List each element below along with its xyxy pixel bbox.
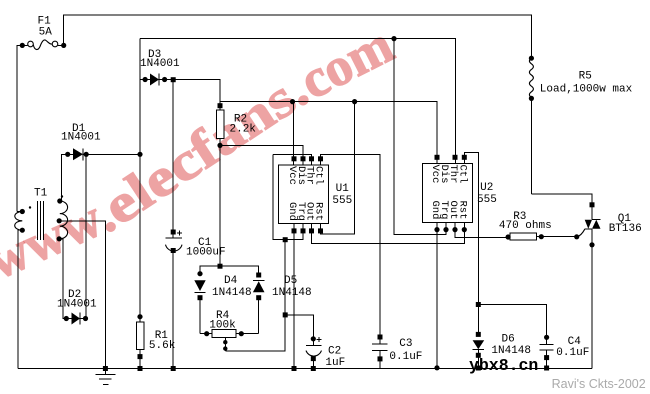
wire trg jog xyxy=(273,155,303,240)
U1 pin Gnd (pin 1) xyxy=(292,228,297,233)
wire U2 gnd xyxy=(436,222,438,368)
junction fuse left node xyxy=(20,43,25,48)
triac Q1 bars xyxy=(592,219,601,221)
wire to T1 primary top xyxy=(17,211,22,213)
U2 pin Ctl (pin 5) xyxy=(462,155,467,160)
R3 left terminal xyxy=(506,234,511,239)
fuse F1 left circle xyxy=(28,41,34,47)
T1 primary top terminal xyxy=(20,209,25,214)
Q1 MT2 pin xyxy=(590,202,595,207)
diode D1 xyxy=(73,148,83,160)
junction U2 Gnd on ground bus xyxy=(434,365,439,370)
junction U1 Trg / R4 wiper node xyxy=(283,237,288,242)
R4 wiper mark upper xyxy=(223,340,227,344)
wire U2 trg xyxy=(394,39,446,235)
svg-text:Ctl: Ctl xyxy=(456,165,468,184)
svg-text:D4: D4 xyxy=(224,275,238,287)
wire top rail xyxy=(64,15,532,58)
resistor R1 xyxy=(139,317,141,322)
wire rst-vcc loop xyxy=(321,102,355,234)
C2 positive terminal xyxy=(311,336,316,341)
wire R2 bottom to Dis xyxy=(220,145,303,165)
Q1 MT1 node xyxy=(589,242,594,247)
R5 bottom terminal xyxy=(529,96,534,101)
junction U1 Gnd on ground bus xyxy=(292,366,297,371)
fuse F1 right circle xyxy=(52,41,58,47)
capacitor C3 xyxy=(379,243,381,344)
C2 negative pin xyxy=(311,356,316,361)
junction R1 top xyxy=(137,314,142,319)
T1 secondary center tap xyxy=(57,218,62,223)
R2 top pin xyxy=(218,103,223,108)
wire line B ctl to C3 xyxy=(321,155,381,338)
fuse F1 element wave xyxy=(33,40,52,50)
D4 cathode pin xyxy=(198,295,203,300)
transformer T1 primary winding xyxy=(15,212,23,231)
svg-text:1N4001: 1N4001 xyxy=(61,132,101,144)
U1 pin Trg (pin 2) xyxy=(301,228,306,233)
wire C2 negative to ground bus xyxy=(312,359,314,369)
svg-text:2.2k: 2.2k xyxy=(230,124,257,136)
U2 pin Vcc (pin 8) xyxy=(435,155,440,160)
junction rectified DC node xyxy=(137,152,142,157)
svg-text:Rst: Rst xyxy=(313,202,325,221)
R5 top terminal xyxy=(529,56,534,61)
svg-text:1N4148: 1N4148 xyxy=(272,287,312,299)
capacitor C2 curved plate xyxy=(306,351,322,357)
junction U2 Ctl rail / C4 branch xyxy=(476,302,481,307)
U2 pin Rst (pin 4) xyxy=(462,227,467,232)
wire D1 cathode down to D2 cathode xyxy=(85,154,87,318)
T1 secondary phase dot xyxy=(61,195,63,197)
D3 cathode node xyxy=(162,77,167,82)
svg-text:470 ohms: 470 ohms xyxy=(499,220,552,232)
D5 cathode pin xyxy=(256,273,261,278)
wire C1 vertical xyxy=(172,80,174,238)
C1 polarity plus sign xyxy=(177,230,182,235)
load R5 xyxy=(530,97,532,194)
svg-text:Ravi's Ckts-2002: Ravi's Ckts-2002 xyxy=(552,377,646,391)
U2 pin Out (pin 3) xyxy=(452,227,457,232)
D4 top node xyxy=(197,271,202,276)
D1 anode node xyxy=(65,152,70,157)
svg-text:Rst: Rst xyxy=(456,201,468,220)
wire vcc line y101.6 xyxy=(220,102,437,164)
svg-text:1N4001: 1N4001 xyxy=(57,299,97,311)
wire D4 D5 top rail xyxy=(200,266,259,275)
svg-text:U1: U1 xyxy=(336,183,350,195)
svg-text:C3: C3 xyxy=(399,338,412,350)
svg-text:555: 555 xyxy=(477,194,497,206)
wire secondary bottom to D2 xyxy=(59,239,66,319)
T1 primary bottom terminal xyxy=(20,228,25,233)
R1 bottom pin xyxy=(138,354,143,359)
wire U2 ctl to D6 xyxy=(464,153,478,335)
U1 box xyxy=(279,165,329,224)
resistor R3 xyxy=(510,233,536,240)
junction raw DC rail / U2 Trg branch xyxy=(391,36,396,41)
ground xyxy=(104,369,106,375)
U2 pin Thr (pin 6) xyxy=(453,155,458,160)
U1 pin Ctl (pin 5) xyxy=(318,156,323,161)
svg-text:Load,1000w max: Load,1000w max xyxy=(540,84,633,96)
T1 secondary bottom terminal xyxy=(57,236,62,241)
C4 top terminal xyxy=(544,335,549,340)
svg-text:D6: D6 xyxy=(502,334,515,346)
U1 pin Thr (pin 6) xyxy=(309,156,314,161)
C3 bottom pin xyxy=(378,356,383,361)
svg-text:T1: T1 xyxy=(34,188,48,200)
svg-text:5A: 5A xyxy=(39,27,53,39)
C2 polarity plus sign xyxy=(317,337,322,342)
junction C2 on ground bus xyxy=(311,366,316,371)
junction D3 cathode / C1 branch xyxy=(171,77,176,82)
U2 pin Trg (pin 2) xyxy=(443,227,448,232)
wire unregulated vertical x140 xyxy=(139,39,141,317)
R3 right terminal xyxy=(539,234,544,239)
C4 bottom pin xyxy=(544,355,549,360)
svg-text:1uF: 1uF xyxy=(325,357,345,369)
R4 left terminal xyxy=(204,331,209,336)
watermark www.elecfans.com xyxy=(0,14,402,291)
svg-text:555: 555 xyxy=(332,195,352,207)
T1 secondary top terminal xyxy=(57,198,62,203)
junction ground symbol on bus xyxy=(103,366,108,371)
wire primary bottom to bus xyxy=(18,230,22,368)
T1 primary phase dot xyxy=(29,206,31,208)
svg-text:100k: 100k xyxy=(209,320,236,332)
triac Q1 triangles xyxy=(585,220,592,229)
wire secondary top to D1 xyxy=(60,154,68,201)
wire fuse left xyxy=(17,45,28,211)
wire center tap to ground xyxy=(59,221,105,369)
wire R5 to triac xyxy=(531,194,592,220)
wire C1 negative to ground bus xyxy=(172,251,174,369)
svg-text:0.1uF: 0.1uF xyxy=(556,347,589,359)
triac Q1 gate lead xyxy=(577,229,585,237)
wire to C2 top xyxy=(285,315,313,346)
C1 positive pin xyxy=(171,230,176,235)
transformer T1 secondary winding xyxy=(60,201,68,239)
wire U2 out to R3 xyxy=(455,222,508,237)
svg-text:0.1uF: 0.1uF xyxy=(389,351,422,363)
junction R1 on ground bus xyxy=(138,366,143,371)
diode D5 wires xyxy=(253,279,265,281)
U1 pin Dis (pin 7) xyxy=(301,156,306,161)
D6 anode pin xyxy=(476,332,481,337)
diode D2 wires xyxy=(66,318,71,320)
diode D4 xyxy=(194,280,205,291)
R4 right terminal xyxy=(239,331,244,336)
wire U1 vcc stub xyxy=(293,102,295,166)
C3 top pin xyxy=(378,335,383,340)
diode D2 xyxy=(72,313,81,325)
junction D6 on ground bus xyxy=(476,366,481,371)
svg-text:ybx8.cn: ybx8.cn xyxy=(469,356,538,375)
U1 pin Vcc (pin 8) xyxy=(292,156,297,161)
wire fuse right lead xyxy=(58,44,64,46)
svg-text:Ctl: Ctl xyxy=(313,166,325,185)
D3 anode node xyxy=(143,77,148,82)
svg-text:1N4148: 1N4148 xyxy=(212,287,252,299)
U2 pin Gnd (pin 1) xyxy=(434,227,439,232)
svg-text:U2: U2 xyxy=(480,182,493,194)
capacitor C4 xyxy=(539,343,553,345)
capacitor C2 flat plate xyxy=(306,344,322,346)
junction D1-D2 cathode node xyxy=(84,152,89,157)
wire timing node vertical xyxy=(225,240,285,351)
wire U1 out to U2 rst xyxy=(312,222,465,243)
diode D6 xyxy=(473,340,485,349)
D6 cathode pin xyxy=(476,353,481,358)
D5 anode pin xyxy=(256,295,261,300)
transformer T1 core xyxy=(37,201,39,240)
wire mid rail y38.6 xyxy=(140,39,456,164)
svg-text:C2: C2 xyxy=(328,346,341,358)
junction R2-C timing rail / D4-D5 rail xyxy=(218,264,223,269)
U2 box xyxy=(422,164,472,223)
diode D3 xyxy=(150,74,159,86)
svg-text:1N4001: 1N4001 xyxy=(140,58,180,70)
junction Vcc rail / U1 Vcc xyxy=(290,99,295,104)
diode D1 wires xyxy=(68,153,73,155)
junction C4 on ground bus xyxy=(544,366,549,371)
svg-text:BT136: BT136 xyxy=(609,223,642,235)
junction timing node / C2 branch xyxy=(283,312,288,317)
capacitor C1 curved plate xyxy=(166,245,183,251)
svg-text:D5: D5 xyxy=(284,275,297,287)
D2 cathode node xyxy=(83,316,88,321)
resistor R2 xyxy=(216,110,224,139)
C1 negative pin xyxy=(171,248,176,253)
wire D6 C4 rail xyxy=(478,305,546,345)
ground bus xyxy=(18,368,592,370)
junction C1 on ground bus xyxy=(171,366,176,371)
diode D5 xyxy=(253,281,265,292)
U1 pin Out (pin 3) xyxy=(309,228,314,233)
U1 pin Rst (pin 4) xyxy=(318,228,323,233)
load R5 coil xyxy=(529,58,533,97)
diode D4 wires xyxy=(199,298,201,334)
junction fuse right / top rail node xyxy=(61,43,66,48)
junction Vcc rail / U1 Rst branch xyxy=(352,99,357,104)
Q1 gate node xyxy=(574,234,579,239)
wire U1 gnd xyxy=(293,224,295,369)
svg-text:1000uF: 1000uF xyxy=(186,247,226,259)
potentiometer R4 xyxy=(212,330,236,338)
capacitor C1 flat plate xyxy=(166,237,183,239)
svg-text:R5: R5 xyxy=(579,71,592,83)
diode D6 wires xyxy=(473,349,485,351)
wire line A thr xyxy=(273,155,311,166)
D2 anode node xyxy=(64,316,69,321)
R4 wiper mark lower xyxy=(223,346,227,350)
junction R2 bottom / U1 Dis node xyxy=(217,143,222,148)
svg-text:5.6k: 5.6k xyxy=(149,340,176,352)
diode D3 wires xyxy=(140,79,150,81)
